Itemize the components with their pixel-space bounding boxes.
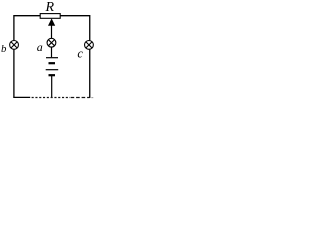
- wire bottom dashed segment right: [71, 97, 90, 99]
- resistor R (rheostat box): [40, 14, 60, 19]
- wire lamp a to battery: [51, 47, 53, 57]
- lamp c: [85, 41, 94, 50]
- svg-text:R: R: [45, 0, 55, 15]
- lamp b: [10, 41, 19, 50]
- wire wiper to lamp a: [51, 23, 53, 39]
- battery cell 2 long plate: [46, 69, 59, 71]
- wire bottom solid segment: [13, 96, 30, 98]
- faint dash right of corner: [91, 97, 94, 99]
- svg-text:a: a: [37, 40, 43, 54]
- wire battery to bottom: [51, 76, 53, 97]
- wire top-right segment: [60, 16, 90, 41]
- svg-text:c: c: [77, 46, 83, 60]
- lamp a: [47, 38, 56, 47]
- rheostat wiper arrow: [48, 18, 55, 25]
- battery cell 1 short plate: [49, 62, 56, 64]
- wire left lower: [13, 50, 15, 98]
- svg-text:b: b: [1, 43, 7, 55]
- wire right lower: [89, 50, 91, 98]
- battery cell 1 long plate: [46, 57, 58, 59]
- wire top-left segment: [14, 16, 40, 41]
- battery cell 2 short plate: [49, 74, 56, 76]
- wire bottom dotted segment: [32, 97, 70, 99]
